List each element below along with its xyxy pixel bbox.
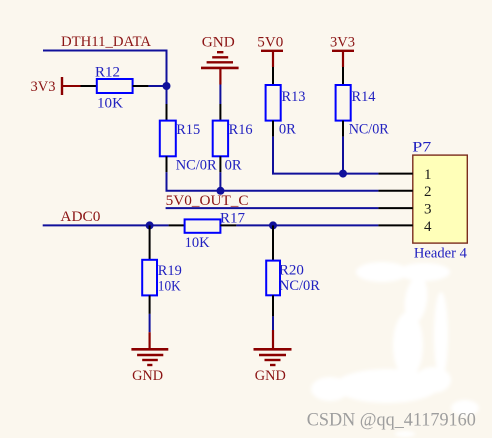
pin 1: [378, 167, 431, 183]
svg-text:GND: GND: [255, 368, 286, 384]
wire R19 to ground: [149, 314, 151, 332]
svg-text:ADC0: ADC0: [60, 209, 100, 225]
svg-text:3: 3: [424, 202, 432, 218]
svg-text:R14: R14: [352, 89, 376, 105]
junction R19 top: [146, 221, 154, 229]
svg-text:Header 4: Header 4: [414, 246, 467, 262]
svg-text:R12: R12: [95, 65, 120, 81]
wire DTH11_DATA horizontal: [43, 50, 167, 52]
resistor R20: [266, 225, 280, 316]
svg-text:2: 2: [424, 184, 432, 200]
wire R15 bottom to pin2 row: [167, 172, 379, 191]
wire R14 bottom: [342, 137, 344, 174]
resistor R15: [160, 104, 176, 172]
svg-text:P7: P7: [412, 139, 432, 155]
wire R17 to pin4 row: [236, 224, 378, 226]
pin 4: [378, 219, 432, 235]
wire ADC0: [43, 224, 169, 226]
svg-text:10K: 10K: [97, 96, 123, 112]
pin 2: [378, 184, 431, 200]
junction R14 bottom: [339, 170, 347, 178]
resistor R19: [142, 225, 157, 314]
wire GND to R16: [219, 85, 221, 105]
svg-text:3V3: 3V3: [330, 35, 355, 51]
svg-text:CSDN @qq_41179160: CSDN @qq_41179160: [307, 409, 476, 430]
svg-text:10K: 10K: [158, 279, 181, 295]
junction A: [163, 82, 171, 90]
header P7: [412, 139, 467, 261]
svg-text:1: 1: [424, 167, 432, 183]
power port 3V3 left: [31, 77, 81, 95]
svg-text:GND: GND: [132, 368, 163, 384]
watermark logo blob: [311, 262, 479, 437]
svg-text:NC/0R: NC/0R: [176, 158, 217, 174]
ground GND top: [201, 34, 239, 84]
svg-text:R20: R20: [279, 263, 304, 279]
svg-text:R17: R17: [220, 210, 245, 226]
power port 3V3 top: [330, 35, 355, 68]
resistor R13: [266, 67, 281, 137]
svg-text:5V0_OUT_C: 5V0_OUT_C: [166, 193, 249, 209]
wire R16 bottom: [219, 172, 221, 191]
power port 5V0 top: [257, 35, 283, 68]
junction R20 top: [269, 221, 277, 229]
wire DTH11_DATA vertical: [166, 50, 168, 105]
wire R12 to junction: [149, 85, 167, 87]
svg-text:0R: 0R: [225, 157, 242, 173]
ground GND bottom left: [131, 332, 168, 384]
ground GND bottom right: [254, 330, 292, 384]
svg-text:10K: 10K: [185, 235, 210, 251]
svg-text:3V3: 3V3: [31, 79, 56, 95]
svg-text:0R: 0R: [279, 122, 296, 138]
svg-text:R15: R15: [176, 122, 200, 138]
svg-text:4: 4: [424, 219, 432, 235]
wire R13 bottom to pin1 row: [273, 137, 378, 174]
svg-text:R19: R19: [158, 263, 182, 279]
pin 3: [378, 202, 431, 218]
svg-text:NC/0R: NC/0R: [349, 122, 389, 138]
wire R20 to ground: [272, 316, 274, 330]
resistor R12: [81, 79, 149, 93]
svg-text:GND: GND: [202, 34, 235, 50]
svg-text:5V0: 5V0: [257, 35, 283, 51]
resistor R16: [213, 104, 228, 172]
resistor R14: [336, 67, 351, 137]
svg-text:NC/0R: NC/0R: [279, 278, 320, 294]
svg-text:DTH11_DATA: DTH11_DATA: [61, 34, 151, 50]
svg-text:R16: R16: [229, 122, 253, 138]
junction R16 bottom: [217, 187, 225, 195]
wire 5V0_OUT_C: [166, 207, 379, 209]
svg-text:R13: R13: [282, 89, 306, 105]
resistor R17: [169, 219, 237, 232]
